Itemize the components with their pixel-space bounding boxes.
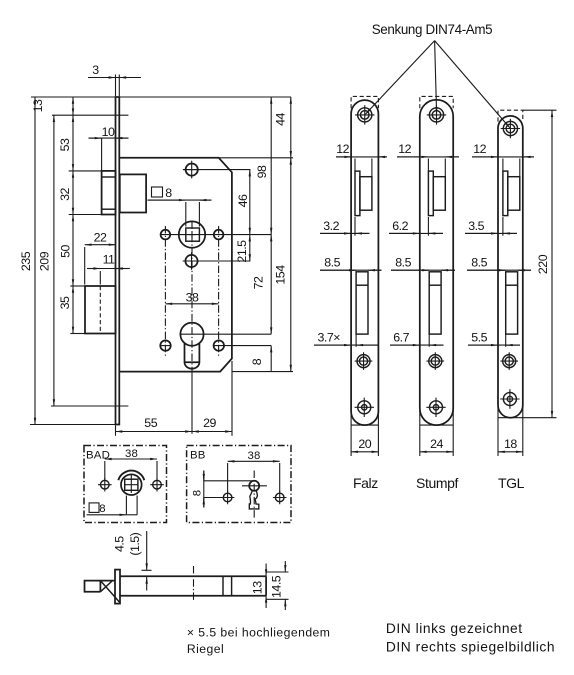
svg-text:3.5: 3.5 (468, 219, 484, 233)
extension 32 top (69, 170, 102, 172)
dimension 154 (290, 158, 292, 372)
follower (spindle) circle (179, 221, 205, 247)
top screw hole cross (183, 161, 201, 179)
svg-text:38: 38 (186, 291, 199, 305)
svg-text:32: 32 (58, 188, 72, 201)
dimension 72 (270, 235, 272, 335)
cylinder side holes (160, 340, 170, 350)
svg-text:3.7×: 3.7× (318, 331, 341, 345)
svg-text:10: 10 (102, 125, 115, 139)
bottom countersunk screw Stumpf (430, 401, 443, 414)
svg-text:24: 24 (430, 437, 443, 451)
side view: lock case bar (120, 576, 266, 596)
extension 32 bottom (69, 214, 102, 216)
svg-text:11: 11 (103, 253, 115, 267)
bottom countersunk screw TGL (503, 393, 516, 406)
svg-text:53: 53 (58, 138, 72, 151)
dimension 6.2 Stumpf (389, 232, 443, 234)
spindle center cross (189, 231, 196, 238)
bolt cutout Stumpf (429, 272, 441, 334)
dimension 6.7 Stumpf (390, 344, 444, 346)
svg-text:4.5: 4.5 (113, 536, 127, 552)
extension plate front (115, 75, 117, 97)
detail frame BB (187, 446, 291, 523)
dimension 209 (53, 115, 55, 406)
side view: face plate flange (115, 570, 120, 604)
main vertical centerline (191, 222, 193, 369)
face plate Stumpf outline (420, 100, 453, 425)
dashed blank corners TGL (498, 110, 523, 121)
dimension 5.5 TGL (468, 344, 520, 346)
hidden line inside dead bolt (99, 286, 101, 334)
svg-text:TGL: TGL (498, 475, 525, 491)
svg-text:(1.5): (1.5) (128, 532, 142, 555)
dimension 22 (bolt head width) (85, 244, 116, 246)
dimension 14.5 (267, 571, 289, 573)
dimension 44 (290, 97, 292, 158)
extension plate bottom down (115, 426, 117, 436)
svg-text:12: 12 (398, 142, 411, 156)
dimension 46 (249, 170, 251, 235)
svg-text:8: 8 (165, 186, 172, 200)
svg-text:8.5: 8.5 (324, 256, 340, 270)
svg-text:5.5: 5.5 (471, 331, 487, 345)
plate bottom extension left (30, 424, 119, 426)
svg-text:13: 13 (31, 99, 45, 112)
dimension 8.5 (bolt cutout) Falz (320, 269, 382, 271)
dimension 12 (latch cutout) Falz (336, 156, 387, 158)
latch tail box behind plate (120, 174, 146, 212)
face plate (front view, 235 long) (116, 97, 120, 425)
svg-text:8.5: 8.5 (395, 256, 411, 270)
svg-text:Riegel: Riegel (187, 642, 224, 656)
dimension 3.5 TGL (465, 232, 517, 234)
spindle side holes (161, 230, 171, 240)
leader lines to countersunk screws (365, 41, 434, 115)
svg-text:35: 35 (58, 296, 72, 309)
bolt cutout TGL (506, 272, 518, 334)
extension 35 top (70, 285, 85, 287)
case bottom extension line (232, 371, 293, 373)
svg-text:6.7: 6.7 (393, 331, 409, 345)
horizontal centerline through cylinder (180, 333, 272, 335)
dimension 18 (plate width) TGL (497, 407, 499, 456)
detail frame BAD (84, 446, 167, 523)
svg-text:Stumpf: Stumpf (416, 475, 458, 491)
lower screw hole (185, 255, 197, 267)
dashed blank corners Stumpf (420, 96, 453, 108)
dimension 8 BB (204, 480, 252, 482)
svg-text:55: 55 (144, 416, 157, 430)
hidden case top edge behind plate (52, 114, 128, 116)
dimension square 8 (spindle) (148, 199, 212, 201)
horizontal centerline through spindle (161, 234, 272, 236)
svg-text:21.5: 21.5 (235, 240, 249, 263)
svg-text:12: 12 (473, 142, 486, 156)
svg-text:209: 209 (38, 251, 52, 271)
svg-text:72: 72 (252, 276, 266, 289)
svg-text:BB: BB (190, 449, 206, 461)
svg-text:3: 3 (92, 63, 99, 77)
side view: latch bolt with bevel (85, 581, 116, 592)
dimension 20 (plate width) Falz (350, 413, 352, 456)
countersunk top screw TGL (503, 121, 517, 135)
hidden case bottom edge behind plate (51, 405, 128, 407)
svg-text:18: 18 (504, 437, 517, 451)
dimension 235 (34, 97, 36, 425)
dimension 3.7× Falz (314, 344, 378, 346)
dimension 38 BAD (105, 458, 157, 460)
middle screw hole Stumpf (429, 355, 442, 368)
svg-text:6.2: 6.2 (392, 219, 408, 233)
extension 35 bottom (70, 333, 85, 335)
side view cylinder ring line 2 (231, 576, 233, 596)
dimension 8.5 (bolt cutout) Stumpf (391, 269, 455, 271)
dashed blank corners Falz (351, 96, 378, 108)
svg-text:Senkung DIN74-Am5: Senkung DIN74-Am5 (372, 22, 493, 37)
top screw hole (186, 164, 198, 176)
lock case outline with chamfered corners (119, 158, 232, 372)
centerline right hole column (218, 226, 220, 357)
latch bevel lower line (102, 208, 116, 210)
latch cutout Stumpf (428, 171, 433, 216)
dimension 8.5 (bolt cutout) TGL (467, 269, 531, 271)
countersunk top screw Falz (358, 108, 372, 122)
svg-text:38: 38 (125, 448, 138, 460)
middle screw hole Falz (357, 355, 370, 368)
svg-text:46: 46 (236, 194, 250, 207)
lower screw centerline extension (183, 260, 251, 262)
latch bevel upper line (102, 176, 116, 178)
svg-text:154: 154 (274, 265, 288, 285)
svg-text:3.2: 3.2 (323, 219, 339, 233)
latch cutout Falz (355, 171, 360, 216)
BB side holes (223, 493, 232, 502)
dead bolt head (protruding left of plate) (85, 286, 116, 334)
dimension 12 (latch cutout) Stumpf (397, 156, 459, 158)
svg-text:98: 98 (255, 165, 269, 178)
bottom countersunk screw Falz (358, 401, 371, 414)
centerline left hole column (164, 226, 166, 357)
dimension 24 (plate width) Stumpf (419, 410, 421, 456)
svg-text:8: 8 (191, 490, 203, 497)
dimension 21.5 (249, 235, 251, 261)
dimension 3 (plate thickness) (88, 77, 141, 79)
svg-text:235: 235 (19, 251, 33, 271)
svg-text:29: 29 (203, 416, 216, 430)
dimension 10 (latch width) (89, 137, 129, 139)
dimension 13 (case height) (265, 564, 267, 577)
dimension 38 (cylinder side holes) (165, 303, 218, 305)
countersunk top screw Stumpf (429, 108, 443, 122)
dimension 220 (TGL length) (523, 417, 557, 419)
cylinder side holes centerline right (213, 345, 271, 347)
dimension 55 (backset) (116, 431, 193, 433)
dimension 29 (192, 431, 232, 433)
middle screw hole TGL (503, 355, 516, 368)
svg-text:220: 220 (536, 254, 550, 274)
bolt cutout Falz (356, 272, 368, 334)
BAD thumbturn knob (121, 474, 142, 495)
BAD rotation arc (118, 471, 144, 481)
dimension 8 (cylinder to side holes) (270, 346, 272, 372)
svg-text:14.5: 14.5 (270, 575, 284, 598)
spindle square 8mm (186, 228, 200, 241)
svg-text:8.5: 8.5 (471, 256, 487, 270)
dimension 38 BB (228, 460, 280, 462)
face plate Falz outline (351, 100, 378, 425)
euro profile cylinder hole (180, 323, 203, 346)
svg-text:DIN links gezeichnet: DIN links gezeichnet (386, 621, 523, 636)
square symbol (152, 187, 163, 197)
side view cylinder ring line 1 (222, 576, 224, 596)
plate top extension line (31, 96, 291, 98)
face plate TGL outline (498, 116, 523, 418)
extension plate back (118, 75, 120, 97)
top screw centerline extension (183, 169, 251, 171)
BB key bit profile (249, 491, 258, 509)
latch cutout TGL (503, 171, 508, 216)
svg-text:20: 20 (358, 437, 371, 451)
dimension 12 (latch cutout) TGL (472, 156, 534, 158)
cylinder side holes centerline left (160, 345, 172, 347)
svg-text:8: 8 (99, 503, 106, 515)
BAD side holes (101, 480, 110, 489)
svg-text:DIN rechts spiegelbildlich: DIN rechts spiegelbildlich (386, 639, 555, 654)
side view centerline (193, 566, 195, 602)
case top extension line (219, 157, 293, 159)
BAD square 8 dimension below knob (125, 496, 127, 515)
dimension 3.2 Falz (320, 232, 370, 234)
BB keyhole (249, 481, 259, 491)
svg-text:22: 22 (94, 231, 107, 245)
svg-text:12: 12 (336, 142, 349, 156)
extension latch left edge up to 10-dim (101, 138, 103, 171)
svg-text:38: 38 (247, 450, 260, 462)
svg-text:Falz: Falz (353, 475, 378, 491)
svg-text:13: 13 (251, 581, 265, 594)
latch bolt head (protruding left of plate) (102, 171, 116, 215)
dimension 98 (270, 97, 272, 235)
svg-text:8: 8 (250, 358, 264, 365)
svg-text:× 5.5 bei hochliegendem: × 5.5 bei hochliegendem (187, 626, 331, 640)
dimension 11 (bolt hidden offset) (87, 268, 130, 270)
lower screw hole cross (183, 252, 201, 270)
svg-text:44: 44 (273, 113, 287, 126)
centerline extension to 55/29 dim (191, 369, 193, 434)
svg-text:50: 50 (59, 245, 73, 258)
chain dimension line 13/53/32/50/35 (72, 97, 74, 115)
extension case right edge down (231, 361, 233, 436)
